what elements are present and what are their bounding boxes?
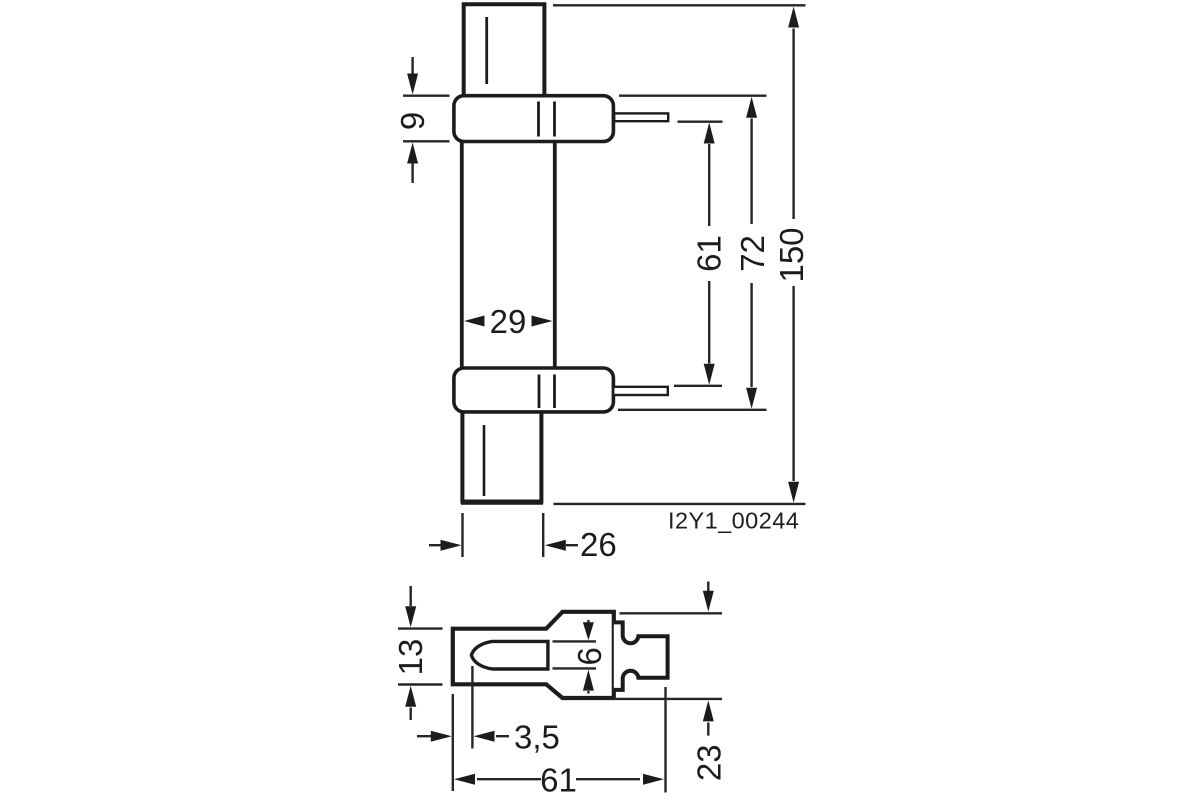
svg-text:61: 61 xyxy=(691,235,728,272)
svg-text:6: 6 xyxy=(571,647,608,665)
svg-text:61: 61 xyxy=(540,762,577,799)
svg-text:150: 150 xyxy=(773,227,810,282)
svg-text:23: 23 xyxy=(691,744,728,781)
svg-text:3,5: 3,5 xyxy=(514,719,560,756)
svg-text:I2Y1_00244: I2Y1_00244 xyxy=(668,508,799,534)
svg-text:13: 13 xyxy=(392,639,429,676)
svg-text:26: 26 xyxy=(580,526,617,563)
svg-text:29: 29 xyxy=(490,303,527,340)
svg-text:72: 72 xyxy=(734,235,771,272)
svg-text:9: 9 xyxy=(394,112,431,130)
